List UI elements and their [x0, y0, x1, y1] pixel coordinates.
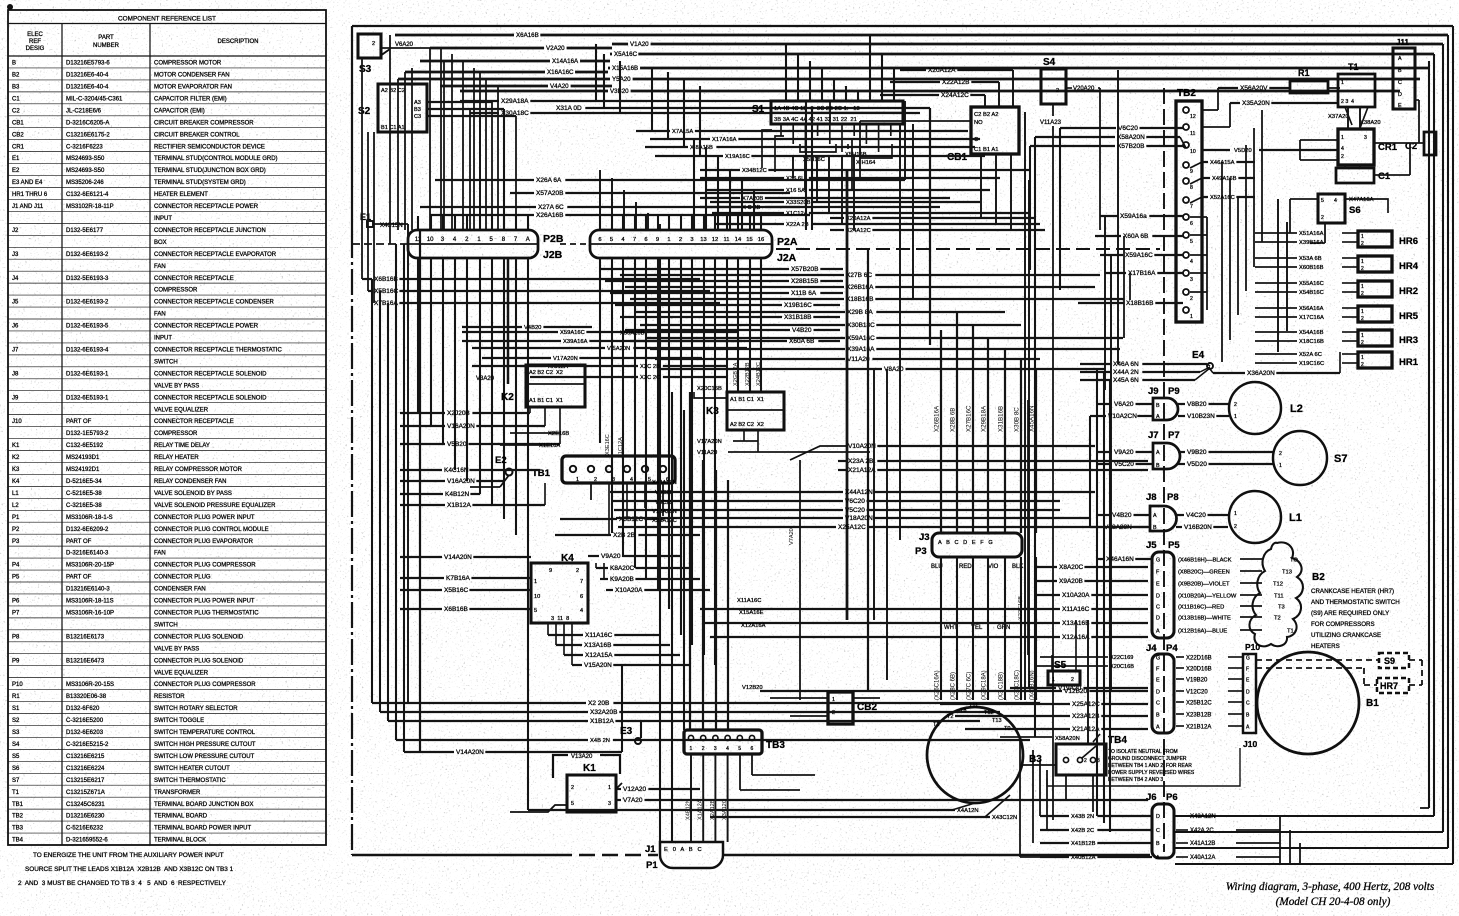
svg-text:CONNECTOR PLUG THERMOSTATIC: CONNECTOR PLUG THERMOSTATIC	[154, 611, 259, 617]
wire V4B20	[625, 329, 790, 331]
wire X2B-2B	[555, 534, 611, 536]
svg-text:X43B 2N: X43B 2N	[1071, 814, 1094, 820]
wire X57B20B drop	[1029, 146, 1031, 270]
svg-text:P6: P6	[1166, 792, 1178, 803]
svg-text:X25A12C: X25A12C	[1072, 701, 1100, 708]
svg-text:V10A2CN: V10A2CN	[1108, 413, 1137, 420]
svg-text:CONNECTOR PLUG: CONNECTOR PLUG	[154, 575, 211, 581]
svg-text:SWITCH TEMPERATURE CONTROL: SWITCH TEMPERATURE CONTROL	[154, 730, 256, 736]
svg-text:B: B	[1156, 403, 1160, 409]
wire TB3 drop X4B12N	[690, 754, 692, 842]
svg-text:CONNECTOR RECEPTACLE EVAPORATO: CONNECTOR RECEPTACLE EVAPORATOR	[154, 252, 277, 258]
evaporator fan motor B3	[927, 707, 1023, 803]
svg-text:V3A20: V3A20	[476, 376, 495, 382]
svg-text:K4C16N: K4C16N	[444, 467, 469, 474]
svg-text:A2 B2 C2 X2: A2 B2 C2 X2	[730, 422, 764, 428]
svg-text:J6: J6	[12, 324, 19, 330]
wire feeder 1110	[1109, 380, 1111, 832]
TB3 terminal 1	[688, 735, 693, 740]
svg-text:E 0 A B C: E 0 A B C	[664, 847, 702, 853]
wire TB3 drop X2A12B	[714, 754, 716, 842]
svg-text:2 3 4: 2 3 4	[1341, 99, 1354, 105]
wire X11B-6A	[610, 292, 789, 294]
svg-text:6: 6	[598, 237, 601, 243]
wire J2B pin drop	[417, 258, 419, 413]
wire HR bundle vertical	[1221, 162, 1223, 362]
wire V10A2CN	[1090, 415, 1106, 417]
terminal block TB4	[1056, 744, 1106, 775]
svg-text:X32A20B: X32A20B	[590, 709, 617, 716]
svg-text:HR4: HR4	[1399, 261, 1419, 272]
svg-text:5: 5	[648, 477, 651, 483]
wire X12A16A-J5	[710, 636, 1060, 638]
svg-text:(X13B16B)—WHITE: (X13B16B)—WHITE	[1178, 616, 1231, 622]
wire HR bundle vertical	[1253, 128, 1255, 267]
wire X13A16B	[556, 644, 582, 646]
wire	[361, 58, 363, 279]
TB2 terminal 11	[1183, 124, 1189, 130]
TB2 terminal 4	[1183, 252, 1189, 258]
svg-text:X39A16A: X39A16A	[847, 346, 875, 353]
wire left drop 396	[395, 244, 397, 740]
svg-text:1: 1	[576, 477, 579, 483]
wire X20A12A	[900, 69, 926, 71]
svg-text:L1: L1	[1289, 512, 1302, 524]
svg-text:TERMINAL STUD(SYSTEM GRD): TERMINAL STUD(SYSTEM GRD)	[154, 180, 246, 186]
svg-text:V7A20: V7A20	[789, 528, 795, 545]
wire TB1 drop	[662, 483, 664, 516]
svg-text:D13216E6-40-4: D13216E6-40-4	[66, 85, 109, 91]
right edge vertical bus 1	[1452, 26, 1454, 864]
wire V19A20	[1010, 687, 1056, 689]
svg-text:4: 4	[630, 477, 633, 483]
svg-text:NUMBER: NUMBER	[93, 43, 120, 49]
svg-text:C13216E6175-2: C13216E6175-2	[66, 132, 110, 138]
svg-text:TB2: TB2	[1177, 88, 1196, 99]
svg-text:P2: P2	[12, 527, 20, 533]
svg-text:V14A20N: V14A20N	[444, 554, 472, 561]
svg-text:K1: K1	[583, 763, 596, 774]
svg-text:E1: E1	[12, 156, 20, 162]
svg-text:(Model CH 20-4-08 only): (Model CH 20-4-08 only)	[1276, 896, 1391, 908]
wire CB1 left NO	[860, 120, 971, 122]
svg-text:3: 3	[690, 237, 693, 243]
svg-text:ELEC: ELEC	[27, 32, 43, 38]
TB3 terminal 6	[749, 735, 754, 740]
svg-text:RED: RED	[959, 564, 972, 570]
svg-text:13: 13	[700, 237, 706, 243]
svg-text:X34B12C: X34B12C	[742, 168, 767, 174]
svg-text:A2 B2 C2: A2 B2 C2	[381, 88, 405, 94]
wire X24A12C	[880, 94, 939, 96]
wire V9A20	[588, 555, 599, 557]
wire V17A20N-left	[482, 357, 551, 359]
wire X8A20C	[1036, 566, 1057, 568]
wire X49A16B	[1202, 177, 1210, 179]
svg-text:S3: S3	[12, 730, 20, 736]
wire J2A pin drop	[714, 258, 716, 665]
svg-text:(X28C 6B): (X28C 6B)	[951, 672, 957, 700]
svg-text:D13216E6-40-4: D13216E6-40-4	[66, 73, 109, 79]
svg-text:X55A16C: X55A16C	[1299, 281, 1324, 287]
switch S6	[1318, 194, 1345, 223]
interface dash line	[352, 243, 408, 245]
wire X-8A15B	[645, 146, 688, 148]
svg-text:X18B16B: X18B16B	[1126, 300, 1153, 307]
wire CB1 bottom A1	[1010, 154, 1012, 230]
svg-text:T2: T2	[947, 714, 954, 720]
svg-text:S7: S7	[1334, 453, 1347, 465]
svg-text:MS3106R-16-10P: MS3106R-16-10P	[66, 611, 114, 617]
svg-text:C-5216E6232: C-5216E6232	[66, 826, 104, 832]
svg-text:P7: P7	[1168, 430, 1180, 441]
svg-text:X H164: X H164	[856, 160, 876, 166]
dashed wire S9-HR7	[1409, 659, 1422, 661]
svg-text:E2: E2	[495, 455, 507, 466]
wire J2A pin drop	[749, 258, 751, 392]
dashed wire P10G-S9	[1256, 659, 1379, 661]
svg-text:TRANSFORMER: TRANSFORMER	[154, 790, 201, 796]
wire J2B pin drop	[527, 258, 529, 810]
wire X10A20A	[1036, 594, 1060, 596]
svg-text:MS24693-S50: MS24693-S50	[66, 156, 105, 162]
svg-text:J9: J9	[12, 395, 19, 401]
wire X59A16C2	[645, 337, 845, 339]
wire J2A pin drop	[645, 258, 647, 579]
svg-text:2: 2	[1361, 266, 1364, 272]
svg-text:1: 1	[1234, 414, 1237, 420]
wire B3 right	[1023, 764, 1056, 766]
svg-text:S4: S4	[12, 742, 20, 748]
svg-text:2: 2	[702, 746, 705, 752]
wire X29A18A	[460, 100, 499, 102]
svg-text:D-3216C6205-A: D-3216C6205-A	[66, 120, 109, 126]
wire X26A-6A ext	[760, 179, 905, 181]
svg-text:V4B20: V4B20	[1112, 512, 1132, 519]
svg-text:V12B20: V12B20	[742, 685, 763, 691]
svg-text:CIRCUIT BREAKER CONTROL: CIRCUIT BREAKER CONTROL	[154, 132, 240, 138]
svg-text:CONNECTOR PLUG POWER INPUT: CONNECTOR PLUG POWER INPUT	[154, 599, 255, 605]
svg-text:B1 C1 A1: B1 C1 A1	[381, 125, 405, 131]
svg-text:V4B20: V4B20	[524, 325, 541, 331]
svg-text:12: 12	[1190, 114, 1196, 120]
svg-text:X37A20: X37A20	[1328, 114, 1349, 120]
svg-text:HR1 THRU 6: HR1 THRU 6	[12, 192, 48, 198]
svg-text:HEATERS: HEATERS	[1311, 643, 1340, 650]
svg-text:4: 4	[1341, 146, 1344, 152]
svg-text:L2: L2	[12, 503, 19, 509]
svg-text:C: C	[1156, 701, 1160, 707]
wire V8B20	[1178, 403, 1185, 405]
wire V5B20	[400, 443, 445, 445]
svg-text:MS24192D1: MS24192D1	[66, 467, 100, 473]
svg-text:X2J20B: X2J20B	[447, 410, 470, 417]
wire X46A16N	[1096, 558, 1104, 560]
svg-text:A: A	[1156, 725, 1160, 731]
wire V6C20b	[612, 500, 843, 502]
svg-text:X42B 2C: X42B 2C	[1071, 828, 1094, 834]
svg-text:T1: T1	[933, 722, 940, 728]
wires rows to P2A top	[611, 178, 613, 230]
svg-text:CONNECTOR PLUG COMPRESSOR: CONNECTOR PLUG COMPRESSOR	[154, 563, 256, 569]
heater HR4	[1358, 256, 1392, 272]
svg-text:J6: J6	[1146, 792, 1157, 803]
svg-text:X40A12A: X40A12A	[1190, 855, 1215, 861]
svg-text:D: D	[1398, 92, 1402, 98]
wire X17B16A	[1105, 272, 1126, 274]
svg-text:CONNECTOR RECEPTACLE SOLENOID: CONNECTOR RECEPTACLE SOLENOID	[154, 395, 267, 401]
svg-text:HEATER ELEMENT: HEATER ELEMENT	[154, 192, 208, 198]
svg-text:HR5: HR5	[1399, 311, 1419, 322]
svg-text:B: B	[1398, 68, 1402, 74]
svg-text:B13216E6173: B13216E6173	[66, 634, 105, 640]
svg-text:V2A20: V2A20	[546, 45, 565, 52]
svg-text:VALVE BY PASS: VALVE BY PASS	[154, 646, 199, 652]
svg-text:X44A12N: X44A12N	[652, 480, 677, 486]
svg-text:S1: S1	[12, 706, 20, 712]
svg-text:5: 5	[738, 746, 741, 752]
svg-text:2: 2	[1234, 524, 1237, 530]
svg-text:E3 AND E4: E3 AND E4	[12, 180, 43, 186]
svg-text:2: 2	[1071, 677, 1074, 683]
wire X23A-2B	[838, 460, 846, 462]
svg-text:J2B: J2B	[543, 249, 563, 261]
wire J2A pin drop	[634, 258, 636, 568]
svg-text:L2: L2	[1290, 403, 1303, 415]
wire X26A-6A	[435, 179, 534, 181]
svg-text:FAN: FAN	[154, 551, 166, 557]
wire X1C12A	[712, 212, 784, 214]
svg-text:(X3 C18B): (X3 C18B)	[999, 672, 1005, 700]
svg-text:X21A12A: X21A12A	[848, 467, 876, 474]
svg-text:D132-6E6193-1: D132-6E6193-1	[66, 371, 109, 377]
wire drop to P2B	[462, 61, 464, 230]
svg-text:CAPACITOR FILTER (EMI): CAPACITOR FILTER (EMI)	[154, 96, 227, 102]
svg-text:SOURCE SPLIT THE LEADS X1B12A: SOURCE SPLIT THE LEADS X1B12A X2B12B AND…	[25, 866, 234, 873]
wire heavy left vertical2	[407, 224, 409, 703]
wire X33520B	[710, 201, 784, 203]
wire CB1 left C	[852, 138, 971, 140]
wire K4C16N	[400, 469, 442, 471]
svg-text:X14A16A: X14A16A	[552, 58, 579, 65]
circuit breaker CB2	[828, 692, 853, 724]
wire X39A16A-left	[462, 340, 561, 342]
svg-text:FOR COMPRESSORS: FOR COMPRESSORS	[1311, 621, 1375, 628]
switch S9 dashed	[1379, 653, 1409, 668]
svg-text:X20C16B: X20C16B	[1110, 664, 1134, 670]
svg-text:CONNECTOR PLUG CONTROL MODULE: CONNECTOR PLUG CONTROL MODULE	[154, 527, 269, 533]
svg-text:X30B 8C: X30B 8C	[1014, 407, 1021, 432]
wire V12B20	[760, 690, 1062, 692]
terminal board TB2	[1176, 101, 1202, 322]
svg-text:K2: K2	[501, 392, 514, 403]
svg-text:MS3102R-18-11P: MS3102R-18-11P	[66, 204, 114, 210]
wire S2 C3	[427, 115, 516, 117]
wire left drop 372	[371, 279, 373, 703]
wire X46A-6N	[1080, 363, 1111, 365]
wire bundle lower (X45B16N)	[1035, 557, 1037, 700]
wires top bus to S1	[785, 44, 787, 101]
svg-text:D: D	[1246, 690, 1250, 696]
svg-text:V1A20: V1A20	[630, 41, 649, 48]
terminal board TB3	[684, 730, 762, 754]
svg-text:3: 3	[1190, 277, 1193, 283]
wire X31B18B	[620, 316, 782, 318]
svg-text:X11A16C: X11A16C	[1062, 606, 1090, 613]
svg-text:X39A16A: X39A16A	[563, 339, 588, 345]
wire K21A12A	[838, 469, 846, 471]
wire X60A16S	[630, 340, 787, 342]
svg-text:V12C20: V12C20	[1186, 690, 1208, 696]
TB3 terminal 4	[725, 735, 730, 740]
svg-text:7: 7	[580, 579, 583, 585]
TB1 terminal 4	[624, 466, 630, 472]
svg-text:X4A12N: X4A12N	[957, 808, 979, 814]
svg-text:3B 3A 4C 4A 42 41 32 31 22 21: 3B 3A 4C 4A 42 41 32 31 22 21	[774, 117, 857, 123]
svg-text:VALVE SOLENOID PRESSURE EQUALI: VALVE SOLENOID PRESSURE EQUALIZER	[154, 503, 276, 509]
svg-text:X31B16B: X31B16B	[998, 406, 1005, 432]
svg-text:D132-6F620: D132-6F620	[66, 706, 100, 712]
svg-text:2: 2	[1056, 88, 1059, 94]
svg-text:2: 2	[1190, 296, 1193, 302]
svg-text:V8B20: V8B20	[1187, 401, 1207, 408]
svg-text:J10: J10	[1243, 739, 1257, 749]
svg-text:P3: P3	[12, 539, 20, 545]
svg-text:V5D20: V5D20	[1187, 461, 1207, 468]
svg-text:V10B23N: V10B23N	[1187, 413, 1215, 420]
wire HR bundle vertical	[1261, 110, 1263, 242]
motor leads blob B2	[1249, 542, 1302, 646]
wire X4A12N	[528, 809, 955, 811]
svg-text:X59A16C: X59A16C	[560, 330, 585, 336]
svg-text:X16A16C: X16A16C	[547, 69, 574, 76]
svg-text:TERMINAL BOARD POWER INPUT: TERMINAL BOARD POWER INPUT	[154, 826, 251, 832]
svg-text:X29A18A: X29A18A	[501, 98, 529, 105]
wire J6 feeds	[1039, 760, 1041, 816]
svg-text:(X10B20A)—YELLOW: (X10B20A)—YELLOW	[1178, 594, 1237, 600]
svg-text:E: E	[1156, 678, 1160, 684]
svg-text:V5C20: V5C20	[655, 500, 673, 506]
wire V6C20 drop	[1059, 128, 1061, 290]
wire bundle lower (X28C 6B)	[956, 557, 958, 700]
svg-text:J2A: J2A	[777, 252, 797, 264]
svg-text:1: 1	[1279, 463, 1282, 469]
svg-text:D132-6E6193-2: D132-6E6193-2	[66, 300, 109, 306]
svg-text:X60A 6B: X60A 6B	[789, 338, 814, 345]
svg-text:A1 B1 C1 X1: A1 B1 C1 X1	[730, 397, 764, 403]
svg-text:HR7: HR7	[1380, 681, 1398, 691]
svg-text:X5B16C: X5B16C	[444, 587, 469, 594]
svg-text:V6A20: V6A20	[395, 42, 414, 48]
svg-text:X20A12A: X20A12A	[846, 216, 871, 222]
svg-text:X46A 6N: X46A 6N	[1113, 361, 1139, 368]
wire TB1 drop	[590, 483, 592, 500]
wire J2B pin drop	[515, 258, 517, 535]
table header row	[8, 55, 326, 57]
svg-text:X59A16C: X59A16C	[847, 335, 875, 342]
svg-text:TERMINAL BOARD JUNCTION BOX: TERMINAL BOARD JUNCTION BOX	[154, 802, 253, 808]
svg-text:X59A16C: X59A16C	[1125, 252, 1153, 259]
svg-text:COMPRESSOR: COMPRESSOR	[154, 431, 198, 437]
svg-text:X29B 8A: X29B 8A	[847, 309, 873, 316]
wire V7A20b	[616, 799, 621, 801]
S1 pin stub	[792, 124, 794, 144]
svg-text:V18A20N: V18A20N	[845, 515, 873, 522]
svg-text:P8: P8	[1167, 492, 1179, 503]
S1 pin stub	[817, 124, 819, 136]
svg-text:V20A20: V20A20	[1073, 86, 1095, 92]
TB2 terminal 5	[1183, 232, 1189, 238]
wire J2A pin drop	[622, 258, 624, 557]
svg-text:CB1: CB1	[947, 152, 967, 163]
svg-text:X56A20V: X56A20V	[1240, 85, 1268, 92]
svg-text:X6A16B: X6A16B	[516, 32, 539, 39]
svg-text:X26B16A: X26B16A	[846, 284, 874, 291]
svg-text:1: 1	[1361, 309, 1364, 315]
S1 hook lines	[762, 130, 772, 168]
wire bundle X26B16A	[940, 330, 942, 533]
svg-text:X1C12A: X1C12A	[786, 211, 808, 217]
wire K4B12N	[400, 493, 443, 495]
svg-text:(X29C18A): (X29C18A)	[982, 670, 988, 700]
svg-text:X12A15A: X12A15A	[585, 652, 613, 659]
wire heavy vertical2	[867, 249, 869, 690]
TB2 terminal 2	[1183, 289, 1189, 295]
wire X32A20B	[380, 711, 588, 713]
svg-text:T0: T0	[1004, 726, 1011, 732]
wire J2B pin drop	[466, 258, 468, 481]
svg-text:CONNECTOR RECEPTACLE JUNCTION: CONNECTOR RECEPTACLE JUNCTION	[154, 228, 266, 234]
svg-text:14: 14	[735, 237, 742, 243]
svg-text:G: G	[1156, 656, 1160, 662]
svg-text:X28B 6B: X28B 6B	[950, 408, 957, 432]
svg-text:T12: T12	[984, 710, 994, 716]
svg-text:TB2: TB2	[12, 814, 24, 820]
svg-text:X44A12N: X44A12N	[845, 489, 873, 496]
wire V6A20	[381, 47, 430, 49]
relay K3	[727, 392, 784, 430]
svg-text:X6B16B: X6B16B	[374, 276, 398, 283]
svg-text:B2: B2	[1312, 572, 1325, 583]
svg-text:P1: P1	[646, 860, 658, 871]
svg-text:X7A15A: X7A15A	[672, 129, 693, 135]
wire X6B16B row	[362, 278, 372, 280]
wire vertical	[886, 369, 888, 680]
svg-text:7: 7	[633, 237, 636, 243]
svg-text:RESISTOR: RESISTOR	[154, 694, 185, 700]
table title row	[8, 23, 326, 25]
svg-text:MOTOR CONDENSER FAN: MOTOR CONDENSER FAN	[154, 73, 230, 79]
wire X19A16C	[655, 155, 723, 157]
TB2 terminal 12	[1183, 107, 1189, 113]
svg-text:V4C20: V4C20	[1186, 512, 1206, 519]
wire X45A-6N	[1080, 379, 1111, 381]
wires TB2 lower pins right	[1190, 216, 1207, 218]
corner mark	[8, 5, 12, 9]
svg-text:PART OF: PART OF	[66, 575, 92, 581]
svg-text:X56A16A: X56A16A	[1299, 306, 1324, 312]
svg-text:X17C16A: X17C16A	[1299, 315, 1324, 321]
wire X30A18C	[470, 112, 499, 114]
wire V5C20b	[614, 509, 843, 511]
wire J2B pin drop	[479, 258, 481, 494]
svg-text:CONNECTOR PLUG COMPRESSOR: CONNECTOR PLUG COMPRESSOR	[154, 682, 256, 688]
svg-text:11: 11	[1190, 131, 1195, 137]
svg-text:K8A20C: K8A20C	[610, 565, 635, 572]
wire J2A pin drop	[691, 258, 693, 645]
svg-text:CONNECTOR RECEPTACLE THERMOSTA: CONNECTOR RECEPTACLE THERMOSTATIC	[154, 348, 282, 354]
svg-text:X19C16C: X19C16C	[1299, 361, 1324, 367]
